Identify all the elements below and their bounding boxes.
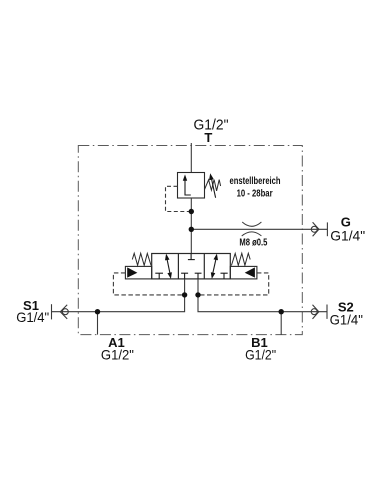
svg-text:enstellbereich: enstellbereich bbox=[230, 176, 281, 187]
svg-text:G1/2": G1/2" bbox=[101, 347, 134, 363]
svg-text:G1/4": G1/4" bbox=[330, 227, 365, 243]
svg-text:G1/4": G1/4" bbox=[330, 311, 363, 327]
svg-text:G1/2": G1/2" bbox=[245, 347, 276, 363]
svg-text:M8 ø0.5: M8 ø0.5 bbox=[239, 238, 267, 249]
svg-text:10 - 28bar: 10 - 28bar bbox=[237, 189, 273, 200]
svg-text:T: T bbox=[204, 130, 212, 145]
svg-text:G1/4": G1/4" bbox=[16, 309, 49, 325]
